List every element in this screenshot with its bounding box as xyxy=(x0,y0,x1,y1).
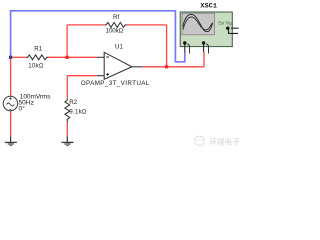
wire red feedback down leg xyxy=(166,25,168,67)
pin Ext Trig xyxy=(226,27,229,30)
svg-text:环球电子: 环球电子 xyxy=(210,137,241,146)
wire blue net input-to-scope-A xyxy=(11,11,185,62)
resistor Rf xyxy=(105,23,127,28)
svg-text:R2: R2 xyxy=(69,99,77,106)
op-amp minus sign xyxy=(106,56,109,58)
node junction input xyxy=(9,56,12,59)
pin B terminal xyxy=(202,41,205,44)
svg-text:9.1kΩ: 9.1kΩ xyxy=(69,108,87,115)
node junction feedback-output xyxy=(165,65,168,68)
ground under source xyxy=(5,137,17,146)
wire red output line xyxy=(143,66,204,68)
AC source V1 xyxy=(3,96,17,110)
wire red source bottom to ground xyxy=(10,111,12,138)
wire red R1 left lead xyxy=(11,56,27,58)
wire red output up to scope B xyxy=(203,52,205,67)
resistor R1 xyxy=(26,55,48,60)
svg-text:Rf: Rf xyxy=(113,14,119,21)
oscilloscope screen xyxy=(182,13,215,35)
wire red feedback top left segment xyxy=(67,24,105,26)
oscilloscope XSC1 body xyxy=(180,12,232,47)
pin A terminal xyxy=(183,41,186,44)
wire red R2 bottom to ground xyxy=(66,123,68,137)
svg-text:XSC1: XSC1 xyxy=(200,3,217,11)
svg-text:U1: U1 xyxy=(115,44,123,51)
wire red plus input line xyxy=(67,75,97,77)
wire red R1 right to op-amp minus xyxy=(47,56,97,58)
wire red source to R1 junction (vertical) xyxy=(10,57,12,96)
op-amp U1 xyxy=(97,52,143,79)
op-amp plus sign xyxy=(106,73,109,75)
svg-text:R1: R1 xyxy=(34,46,42,53)
wire red plus line down to R2 xyxy=(66,76,68,99)
oscilloscope trace A xyxy=(183,14,213,31)
node junction feedback-minus xyxy=(66,56,69,59)
resistor R2 xyxy=(65,99,70,123)
svg-text:10kΩ: 10kΩ xyxy=(28,62,44,69)
wire red feedback up leg xyxy=(66,25,68,57)
svg-text:0°: 0° xyxy=(19,105,26,113)
svg-text:OPAMP_3T_VIRTUAL: OPAMP_3T_VIRTUAL xyxy=(81,80,150,87)
ground under R2 xyxy=(62,137,74,146)
oscilloscope trace B xyxy=(183,17,212,30)
wire red feedback top right segment xyxy=(127,24,167,26)
watermark logo xyxy=(195,136,205,146)
svg-text:100kΩ: 100kΩ xyxy=(106,28,124,35)
svg-text:Ext Trig: Ext Trig xyxy=(218,20,232,25)
